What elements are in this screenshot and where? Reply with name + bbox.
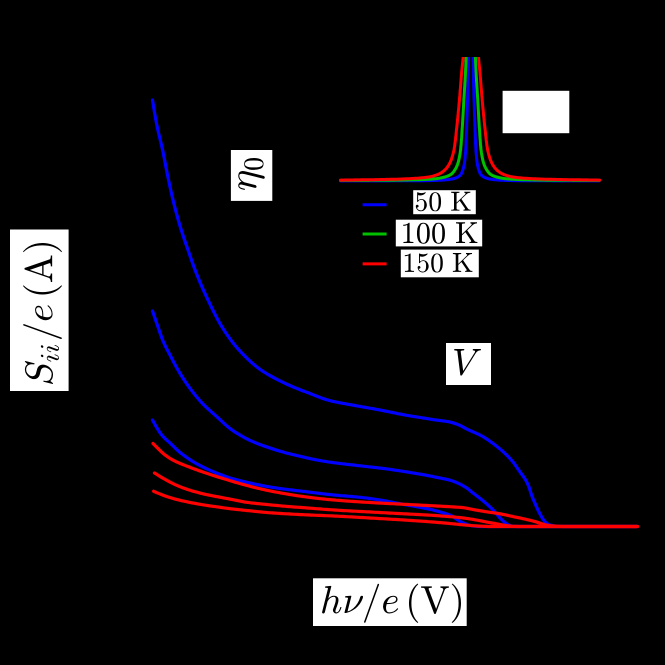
y-axis label text (23, 243, 62, 384)
V label text (454, 349, 481, 376)
legend label 50 K box (413, 190, 476, 214)
legend label 50 K text (416, 192, 471, 212)
legend swatch blue (363, 203, 387, 206)
inset red 150K (341, 40, 600, 180)
x-axis label text (322, 584, 461, 623)
legend label 100 K box (396, 220, 482, 247)
legend label 100 K text (403, 222, 477, 243)
blue curve C3 (50K, V1) (153, 420, 638, 527)
legend label 150 K text (405, 253, 473, 273)
legend label 150 K box (401, 250, 479, 278)
inset blue 50K (341, 40, 600, 181)
red curve C6 (150K, V1) (154, 491, 637, 526)
eta_0 label text (238, 158, 265, 190)
legend swatch green (363, 233, 387, 236)
red curve C4 (150K, V3) (153, 444, 638, 527)
eta_0 label box (231, 150, 272, 201)
y-axis label box S_ii/e (A) (10, 230, 69, 392)
blank white box (503, 91, 570, 133)
red curve C5 (150K, V2) (155, 473, 638, 527)
blue curve C2 (50K, V2) (153, 311, 638, 527)
x-axis label box hnu/e (V) (313, 578, 467, 626)
inset green 100K (341, 40, 600, 180)
V label box (446, 343, 491, 385)
blue curve C1 (50K, V3) (153, 100, 638, 527)
legend swatch red (363, 262, 387, 265)
